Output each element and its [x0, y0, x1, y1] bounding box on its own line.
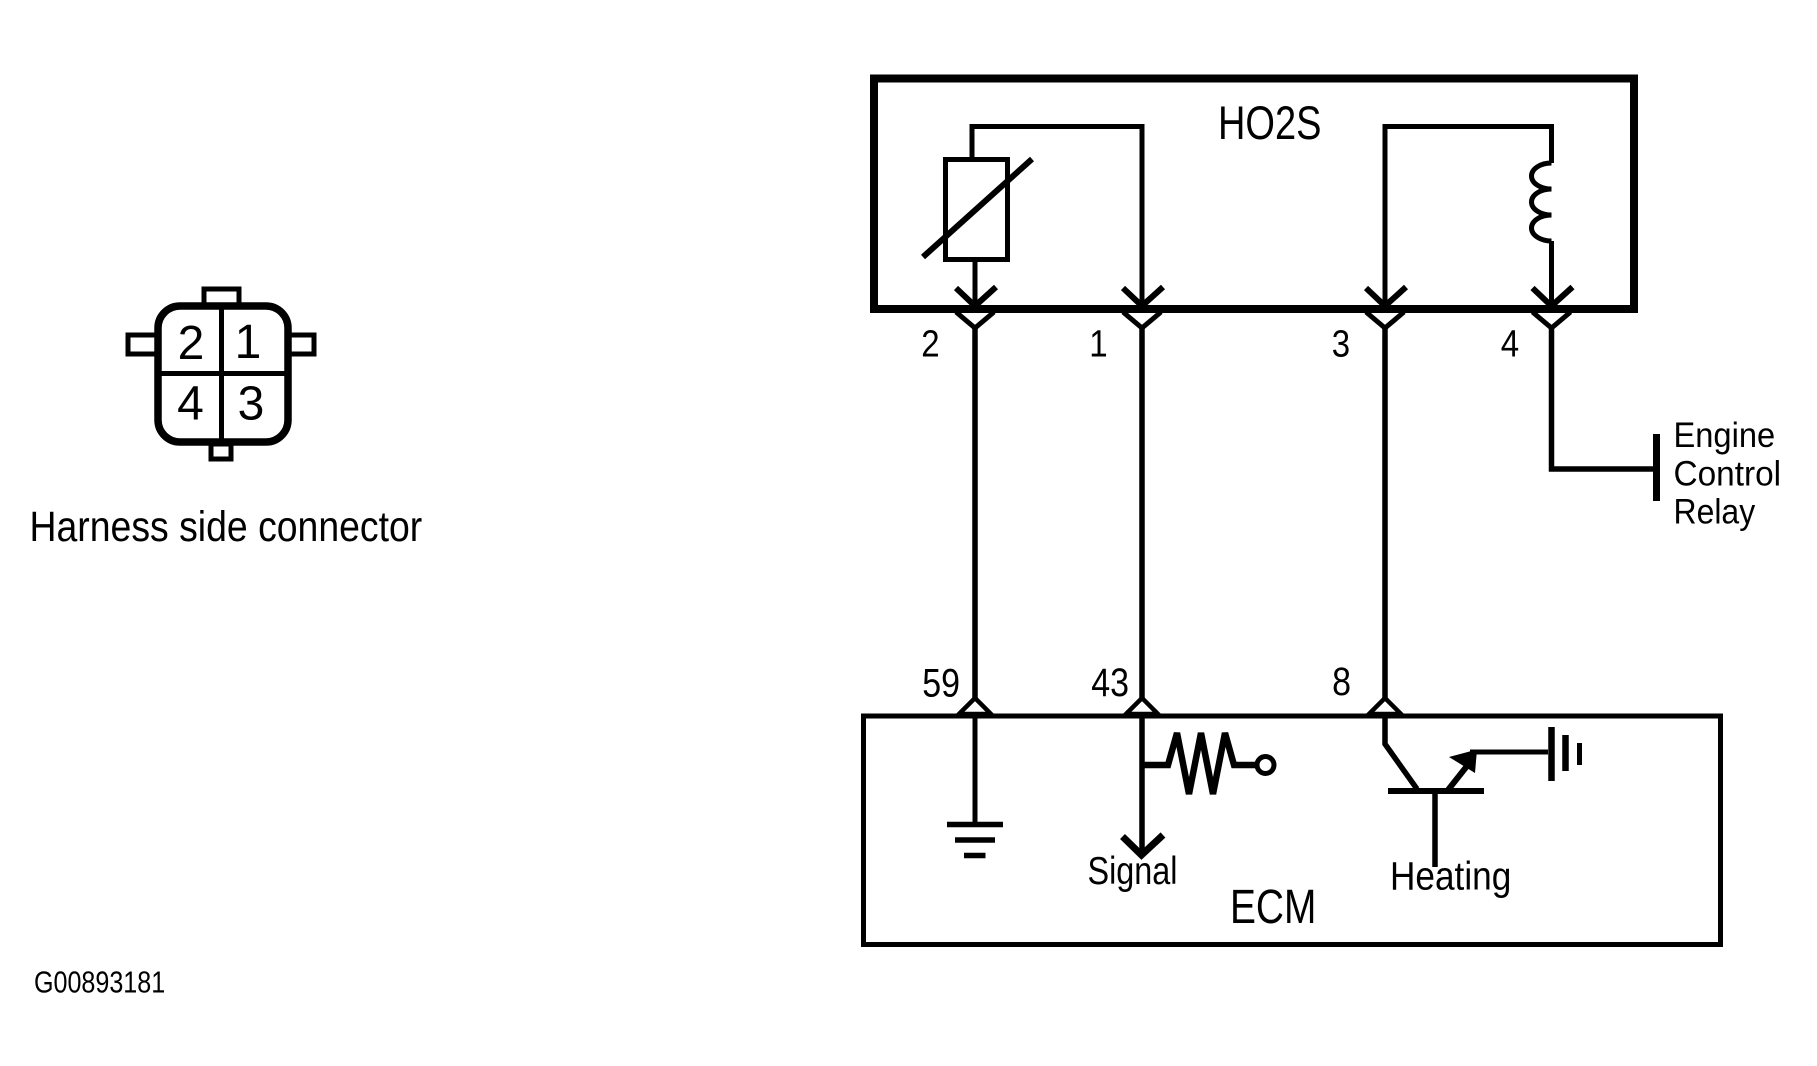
svg-text:G00893181: G00893181	[34, 964, 165, 999]
svg-text:59: 59	[922, 661, 960, 705]
svg-text:Heating: Heating	[1390, 853, 1511, 898]
svg-text:Signal: Signal	[1088, 849, 1178, 893]
svg-text:2: 2	[178, 317, 205, 370]
svg-text:3: 3	[1332, 322, 1350, 365]
svg-text:2: 2	[921, 322, 939, 365]
svg-text:Engine: Engine	[1674, 416, 1776, 456]
svg-text:Control: Control	[1674, 455, 1782, 494]
svg-text:Relay: Relay	[1674, 492, 1756, 532]
svg-text:Harness side connector: Harness side connector	[30, 504, 423, 551]
svg-text:1: 1	[1089, 322, 1107, 365]
svg-text:HO2S: HO2S	[1218, 97, 1321, 150]
svg-text:3: 3	[238, 378, 265, 431]
svg-text:43: 43	[1091, 661, 1129, 705]
svg-text:4: 4	[177, 378, 204, 431]
svg-text:8: 8	[1332, 660, 1351, 704]
svg-text:4: 4	[1501, 322, 1519, 365]
svg-text:ECM: ECM	[1230, 880, 1316, 934]
svg-text:1: 1	[235, 316, 262, 369]
